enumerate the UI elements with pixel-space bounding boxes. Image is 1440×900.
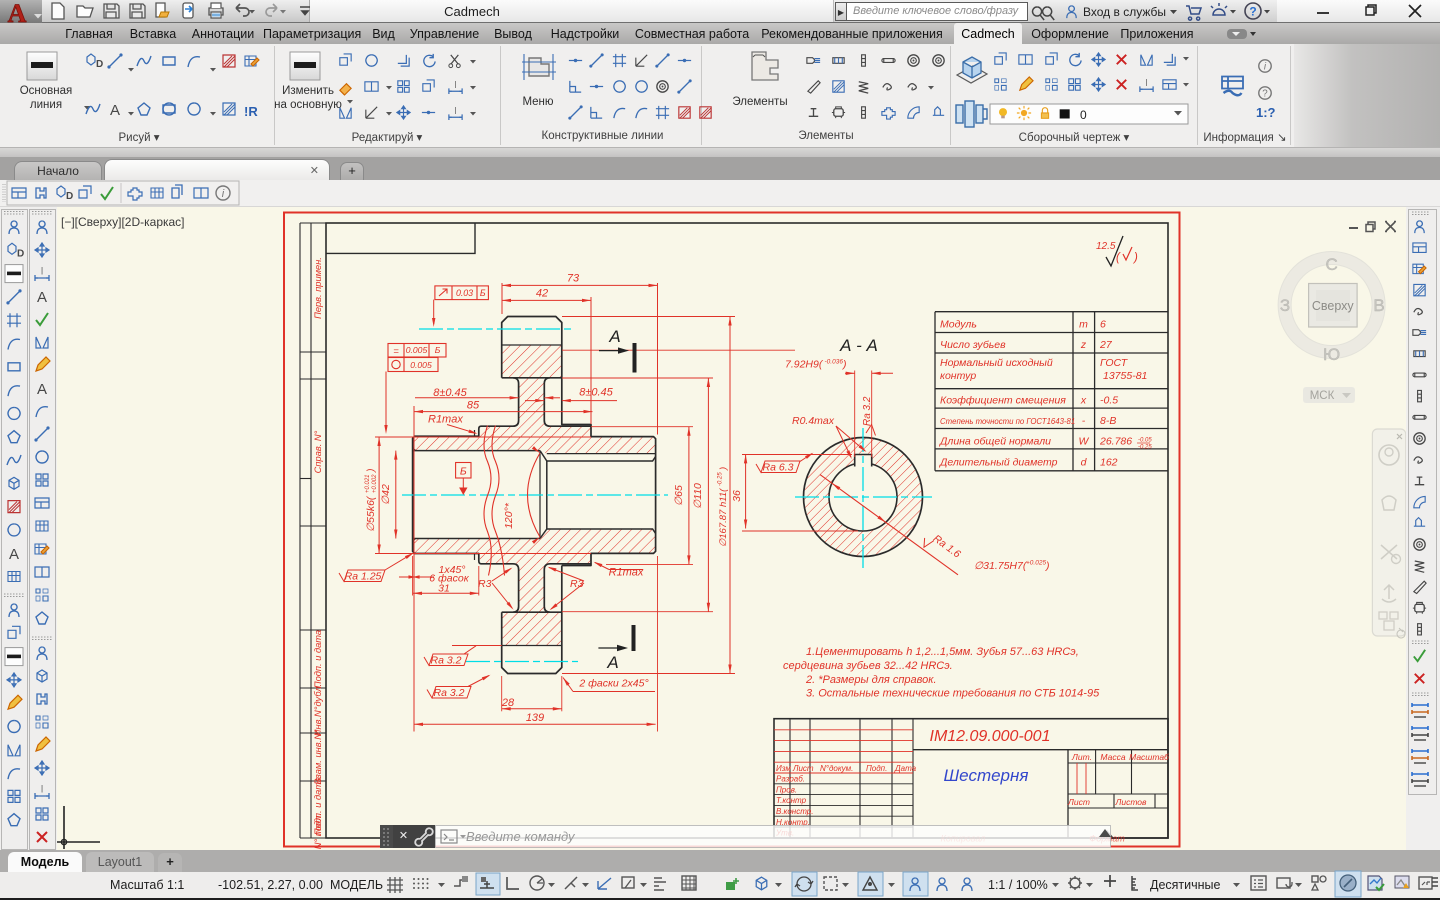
svg-text:N°докум.: N°докум. bbox=[820, 764, 853, 773]
svg-text:|: | bbox=[455, 80, 457, 89]
svg-text:Масса: Масса bbox=[1100, 752, 1125, 762]
view cube bbox=[1285, 258, 1379, 352]
svg-text:∅167.87 h11(: ∅167.87 h11( bbox=[718, 488, 729, 547]
ribbon icons elements panel bbox=[752, 52, 778, 80]
svg-text:+0.002: +0.002 bbox=[372, 474, 378, 493]
svg-text:D: D bbox=[66, 191, 73, 202]
svg-text:∅55k6(: ∅55k6( bbox=[365, 495, 377, 532]
svg-text:Делительный диаметр: Делительный диаметр bbox=[939, 457, 1058, 469]
svg-text:x: x bbox=[1080, 395, 1087, 407]
svg-text:Т.контр: Т.контр bbox=[776, 796, 807, 805]
dimension 42 bbox=[502, 299, 591, 301]
left margin column bbox=[300, 223, 311, 838]
svg-text:Перв. примен.: Перв. примен. bbox=[313, 257, 323, 319]
svg-text:A: A bbox=[110, 102, 120, 119]
svg-text:Пров.: Пров. bbox=[776, 785, 797, 794]
window control buttons bbox=[1317, 12, 1329, 14]
svg-text:Ra 1.6: Ra 1.6 bbox=[931, 533, 963, 561]
svg-text:?: ? bbox=[1249, 5, 1256, 19]
svg-text:-0.25: -0.25 bbox=[718, 472, 724, 486]
svg-text:Десятичные: Десятичные bbox=[1150, 878, 1221, 892]
120 deg cone arc bbox=[528, 453, 541, 537]
svg-text:28: 28 bbox=[501, 697, 515, 709]
svg-text:В.констр.: В.констр. bbox=[776, 807, 813, 816]
svg-text:Лист: Лист bbox=[1067, 797, 1090, 807]
svg-text:Длина общей нормали: Длина общей нормали bbox=[939, 436, 1051, 448]
svg-text:Нормальный исходный: Нормальный исходный bbox=[940, 357, 1053, 369]
svg-text:-0.05: -0.05 bbox=[1138, 438, 1152, 444]
svg-text:Дата: Дата bbox=[894, 764, 917, 773]
svg-text:Число зубьев: Число зубьев bbox=[940, 339, 1006, 351]
svg-text:A: A bbox=[8, 0, 27, 28]
svg-text:R1max: R1max bbox=[609, 567, 644, 579]
svg-text:Изм: Изм bbox=[776, 764, 791, 773]
svg-text:Сверху: Сверху bbox=[1312, 299, 1355, 313]
frames 0.005 bbox=[388, 344, 446, 358]
svg-text:A: A bbox=[37, 289, 47, 306]
svg-text:6: 6 bbox=[1100, 319, 1106, 331]
svg-text:(: ( bbox=[1116, 252, 1121, 264]
svg-text:73: 73 bbox=[567, 273, 580, 285]
svg-text:i: i bbox=[1264, 62, 1267, 73]
svg-text:Справ. N°: Справ. N° bbox=[313, 430, 323, 473]
svg-text:27: 27 bbox=[1099, 339, 1113, 351]
infocenter icons bbox=[1033, 7, 1055, 20]
svg-text:Б: Б bbox=[435, 345, 441, 355]
svg-text:∅31.75H7(: ∅31.75H7( bbox=[974, 560, 1028, 572]
svg-text:8-B: 8-B bbox=[1100, 415, 1116, 427]
gear part outline bbox=[502, 317, 591, 427]
36 dim bbox=[745, 454, 747, 528]
svg-text:контур: контур bbox=[940, 370, 976, 382]
svg-text:Разраб.: Разраб. bbox=[776, 775, 805, 784]
svg-text:З: З bbox=[1280, 296, 1290, 315]
svg-text:m: m bbox=[1079, 319, 1088, 331]
left vertical toolbars bbox=[4, 212, 24, 215]
ribbon icons edit panel bbox=[290, 52, 320, 80]
svg-text:∅110: ∅110 bbox=[692, 483, 704, 509]
svg-text:Ra 6.3: Ra 6.3 bbox=[763, 462, 794, 474]
svg-text:0.005: 0.005 bbox=[406, 345, 428, 355]
svg-text:Степень точности по ГОСТ1643-8: Степень точности по ГОСТ1643-81 bbox=[940, 417, 1075, 426]
svg-text:): ) bbox=[365, 469, 377, 475]
svg-text:Ю: Ю bbox=[1323, 345, 1340, 364]
navigation bar bbox=[1372, 429, 1405, 636]
svg-text:-0.036: -0.036 bbox=[825, 359, 844, 366]
svg-text:Листов: Листов bbox=[1115, 797, 1148, 807]
svg-text:|: | bbox=[455, 106, 457, 115]
status bar icons bbox=[387, 877, 403, 893]
drawing sheet red frame bbox=[284, 213, 1180, 847]
datum B flag bbox=[456, 463, 471, 479]
svg-text:Подп.: Подп. bbox=[866, 764, 887, 773]
centerlines bbox=[402, 494, 668, 496]
svg-text:Коэффициент смещения: Коэффициент смещения bbox=[940, 395, 1066, 407]
svg-text:|: | bbox=[41, 784, 43, 793]
svg-text:?: ? bbox=[1262, 89, 1268, 100]
svg-text:Б: Б bbox=[480, 288, 486, 298]
svg-text:-: - bbox=[1082, 415, 1086, 427]
svg-text:162: 162 bbox=[1100, 457, 1118, 469]
svg-text:А: А bbox=[606, 653, 618, 672]
viewport window controls bbox=[1349, 227, 1358, 229]
top-left margin box bbox=[326, 223, 475, 253]
svg-text:13755-81: 13755-81 bbox=[1103, 370, 1147, 382]
svg-text:W: W bbox=[1079, 436, 1090, 448]
svg-text:Модуль: Модуль bbox=[940, 319, 977, 331]
svg-text:36: 36 bbox=[731, 490, 743, 502]
svg-text:z: z bbox=[1080, 339, 1087, 351]
svg-text:сердцевина зубьев 32...42 H: сердцевина зубьев 32...42 HRCэ. bbox=[783, 660, 953, 672]
svg-text:ГОСТ: ГОСТ bbox=[1100, 357, 1129, 369]
svg-text:|: | bbox=[1146, 78, 1148, 87]
right vertical toolbar bbox=[1412, 212, 1430, 215]
svg-text:8±0.45: 8±0.45 bbox=[579, 387, 613, 399]
svg-text:С: С bbox=[1325, 255, 1337, 274]
ribbon icons construction lines panel bbox=[529, 58, 549, 76]
gear parameter table bbox=[935, 312, 1095, 471]
svg-text:-0.25: -0.25 bbox=[1138, 445, 1152, 451]
svg-text:∅42: ∅42 bbox=[380, 484, 392, 505]
svg-text:!R: !R bbox=[244, 104, 258, 119]
svg-text:1.Цементировать h 1,2...1,5м: 1.Цементировать h 1,2...1,5мм. Зубья 57.… bbox=[806, 646, 1079, 658]
AutoCAD A logo bbox=[0, 0, 42, 28]
svg-text:IM12.09.000-001: IM12.09.000-001 bbox=[930, 728, 1051, 745]
svg-text:D: D bbox=[17, 248, 24, 259]
svg-text:A: A bbox=[9, 546, 19, 563]
svg-text:R3: R3 bbox=[478, 578, 492, 590]
svg-text:i: i bbox=[222, 188, 225, 200]
svg-text:Б: Б bbox=[460, 466, 467, 478]
svg-text:139: 139 bbox=[526, 712, 544, 724]
svg-text:=: = bbox=[393, 346, 399, 357]
svg-text:2 фаски 2x45°: 2 фаски 2x45° bbox=[578, 678, 648, 690]
svg-text:Масштаб: Масштаб bbox=[1129, 752, 1170, 762]
svg-text:120°*: 120°* bbox=[503, 502, 515, 529]
frame 0.03 B bbox=[435, 286, 489, 300]
svg-text:+0.025: +0.025 bbox=[1026, 560, 1046, 567]
svg-text:31: 31 bbox=[438, 583, 450, 595]
dia 42 dim bbox=[395, 451, 397, 539]
svg-text:Шестерня: Шестерня bbox=[944, 766, 1029, 785]
section A arrows bbox=[599, 350, 622, 352]
svg-text:26.786: 26.786 bbox=[1099, 436, 1132, 448]
svg-text:∅65: ∅65 bbox=[673, 485, 685, 506]
svg-text:Взам. инв.N°: Взам. инв.N° bbox=[313, 729, 323, 785]
svg-text:А: А bbox=[608, 327, 620, 346]
quickbar icons bbox=[3, 184, 5, 202]
dia 31.75 diag dim bbox=[820, 475, 958, 575]
Ra 3.2 keyway flag bbox=[862, 396, 873, 426]
svg-text:1:?: 1:? bbox=[1256, 105, 1276, 120]
svg-text:R0.4max: R0.4max bbox=[792, 415, 835, 427]
dia 55k6 dim bbox=[378, 437, 380, 554]
svg-text:Лит.: Лит. bbox=[1071, 752, 1092, 762]
svg-text:Лист: Лист bbox=[792, 764, 814, 773]
right side diameter dims bbox=[688, 427, 690, 565]
svg-text:): ) bbox=[1132, 252, 1138, 264]
svg-text:7.92H9(: 7.92H9( bbox=[785, 359, 824, 371]
svg-text:R1max: R1max bbox=[428, 414, 463, 426]
svg-text:A: A bbox=[37, 381, 47, 398]
svg-text:1:1 / 100%: 1:1 / 100% bbox=[988, 878, 1048, 892]
svg-text:0.005: 0.005 bbox=[410, 360, 432, 370]
bore lines bbox=[413, 451, 540, 539]
sheet inner black border bbox=[326, 223, 1168, 838]
ribbon icons info panel bbox=[1222, 77, 1243, 96]
svg-text:0.03: 0.03 bbox=[456, 288, 473, 298]
command expand arrow bbox=[1101, 830, 1113, 837]
svg-text:Инв. N° подл.: Инв. N° подл. bbox=[313, 813, 323, 871]
ribbon icons assembly panel bbox=[957, 57, 987, 83]
svg-text:Ra 3.2: Ra 3.2 bbox=[434, 687, 465, 699]
svg-text:3. Остальные технические тр: 3. Остальные технические требования по С… bbox=[806, 688, 1100, 700]
svg-text:Подп. и дата: Подп. и дата bbox=[313, 630, 323, 688]
quick access toolbar icons bbox=[52, 3, 64, 19]
svg-text:Вход в службы: Вход в службы bbox=[1083, 5, 1166, 19]
svg-text:В: В bbox=[1373, 296, 1384, 315]
svg-text:МСК: МСК bbox=[1310, 390, 1335, 402]
svg-text:): ) bbox=[718, 467, 729, 471]
gear section hatching bbox=[502, 345, 562, 378]
keyway width dim 7.92H9 bbox=[854, 371, 856, 458]
svg-text:Ra 3.2: Ra 3.2 bbox=[431, 655, 462, 667]
title block bbox=[774, 719, 1168, 838]
svg-text:Ra 1.25: Ra 1.25 bbox=[345, 571, 382, 583]
svg-text:2. *Размеры для справок.: 2. *Размеры для справок. bbox=[805, 674, 937, 686]
ribbon icons draw panel bbox=[27, 52, 57, 80]
svg-text:d: d bbox=[1081, 457, 1088, 469]
svg-text:8±0.45: 8±0.45 bbox=[433, 387, 467, 399]
svg-text:-0.5: -0.5 bbox=[1100, 395, 1118, 407]
svg-text:85: 85 bbox=[467, 400, 480, 412]
UCS icon bbox=[57, 806, 100, 849]
svg-text:D: D bbox=[96, 59, 103, 70]
svg-text:0: 0 bbox=[1080, 108, 1087, 122]
dimension 73 bbox=[502, 284, 658, 286]
svg-text:А - А: А - А bbox=[839, 336, 878, 355]
svg-text:12.5: 12.5 bbox=[1096, 241, 1116, 252]
svg-text:Ra 3.2: Ra 3.2 bbox=[862, 396, 873, 426]
wavy break lines bbox=[484, 426, 491, 576]
svg-text:|: | bbox=[41, 266, 43, 275]
svg-text:42: 42 bbox=[536, 288, 548, 300]
svg-text:+0.021: +0.021 bbox=[365, 474, 371, 493]
svg-text:Инв.N°дубл.: Инв.N°дубл. bbox=[313, 684, 323, 736]
